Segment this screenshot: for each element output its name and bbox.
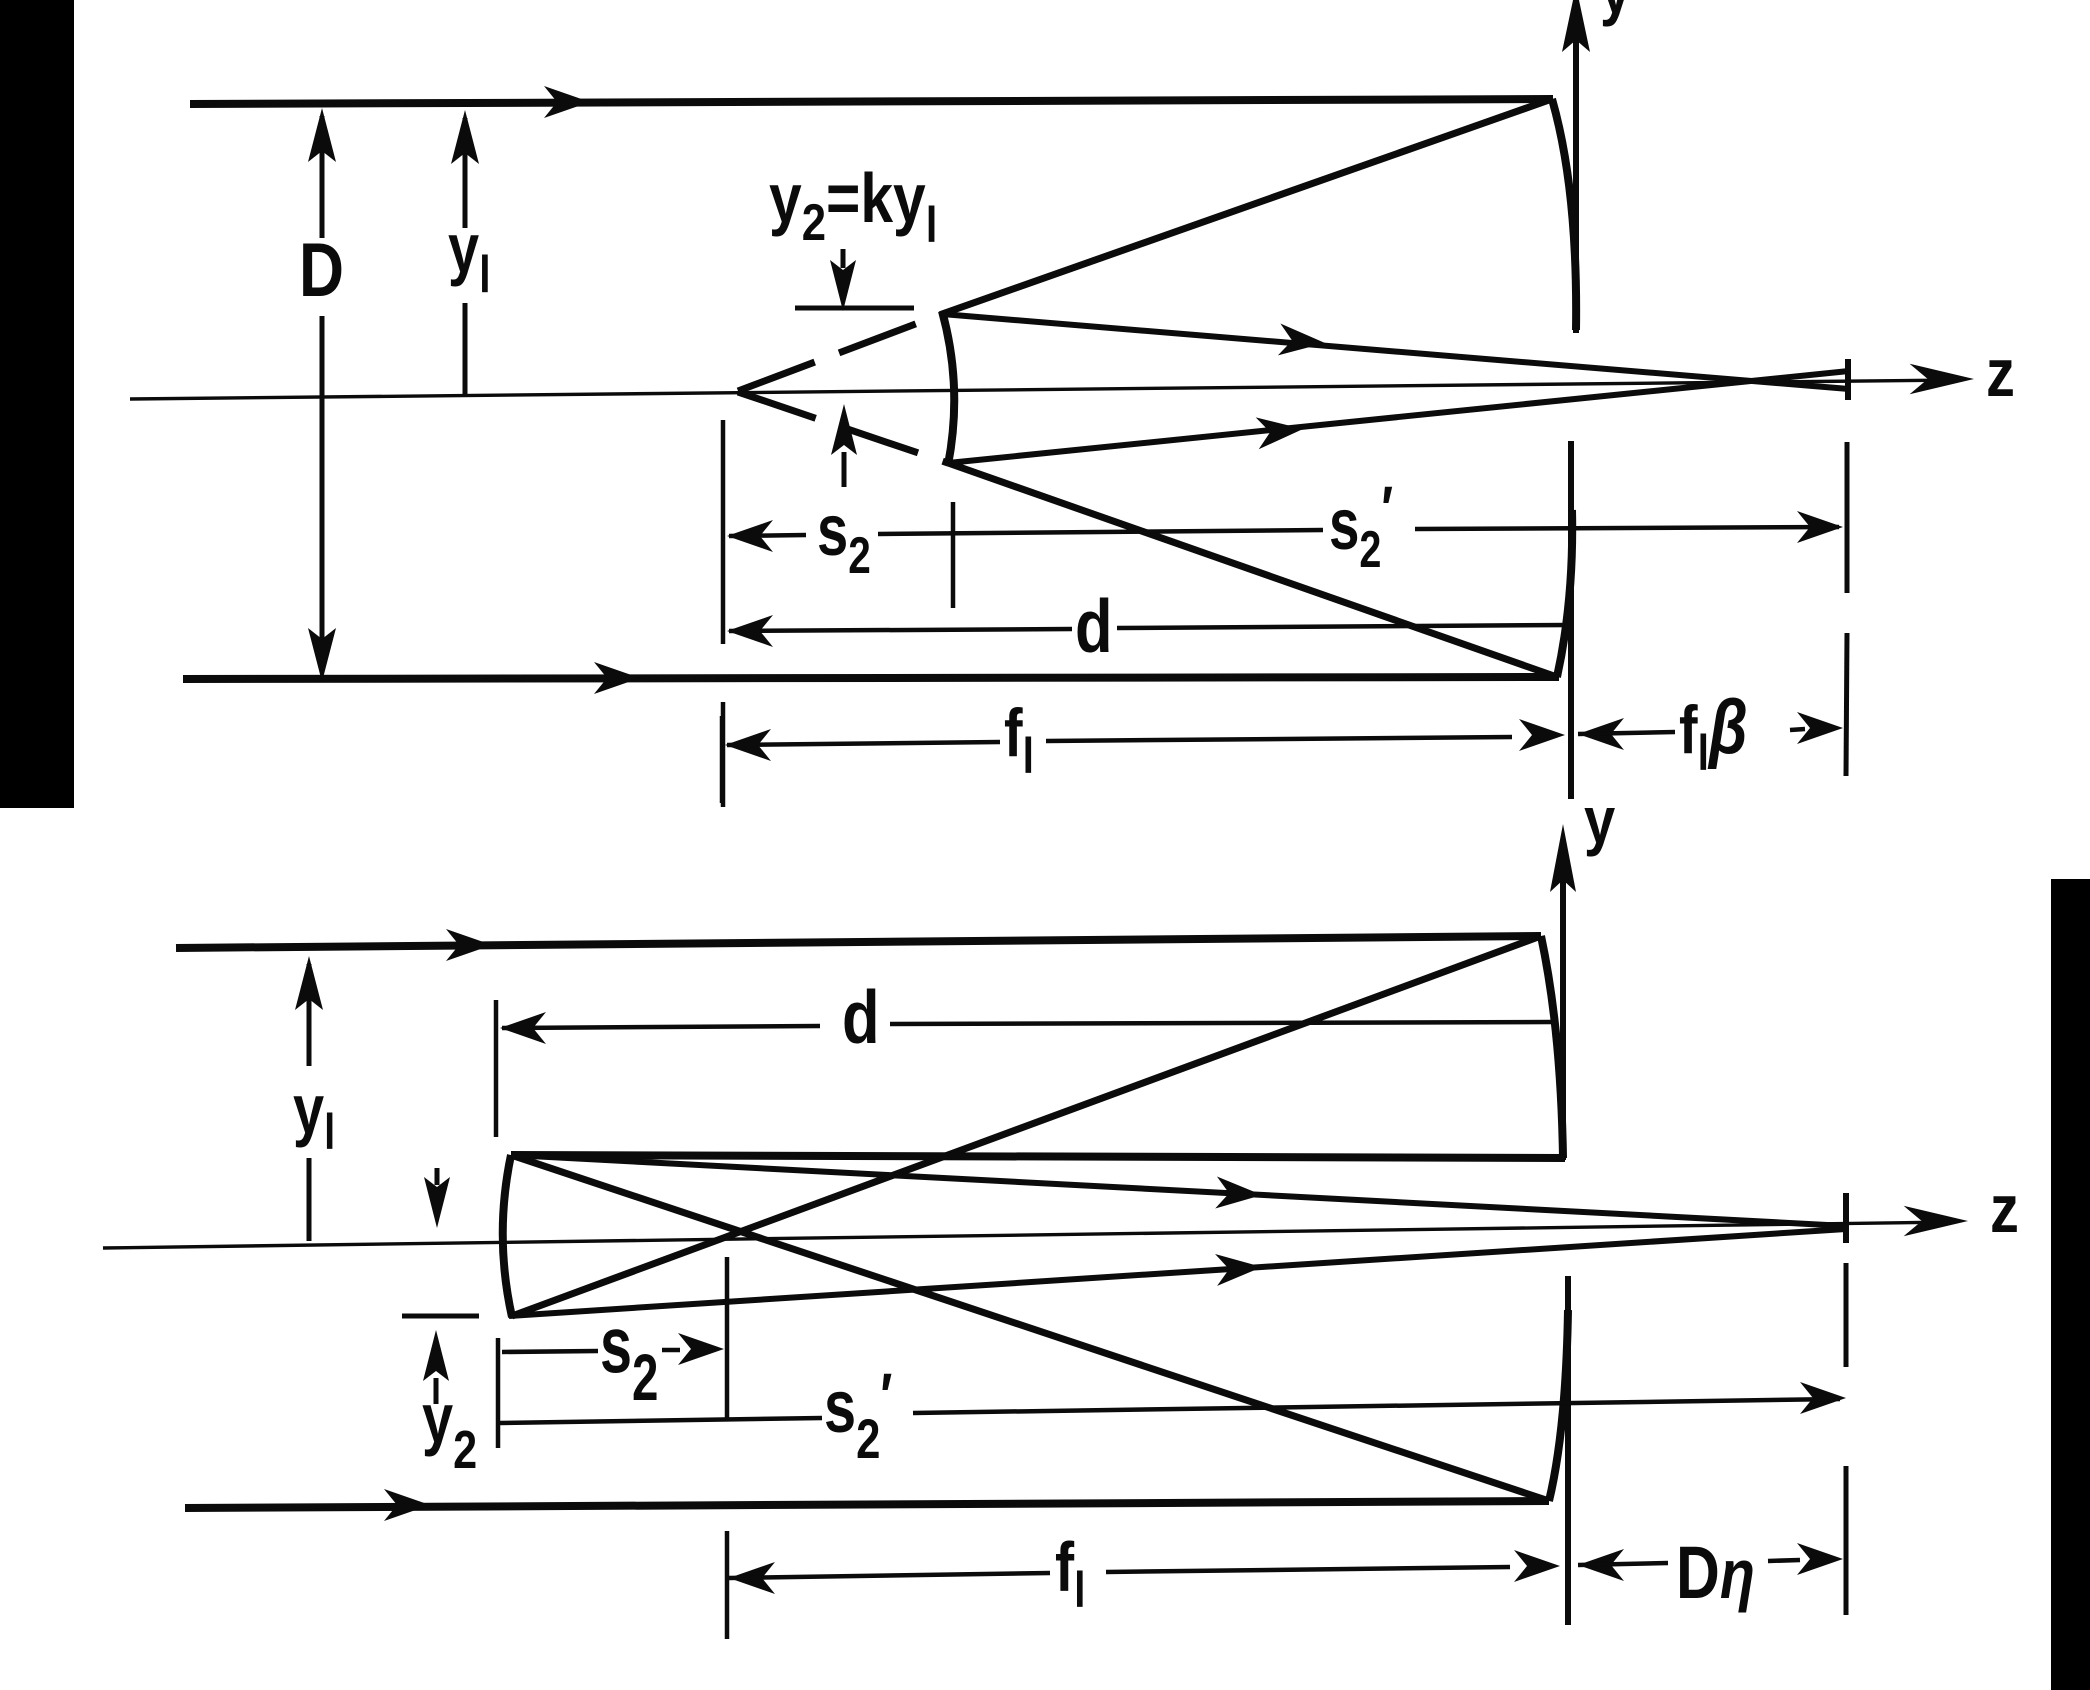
y axis arrowhead (bottom diagram) xyxy=(1550,824,1576,892)
s2' label (top diagram) xyxy=(1329,475,1393,579)
svg-text:d: d xyxy=(1075,584,1113,668)
s2' right arrowhead (bottom diagram) xyxy=(1800,1382,1846,1414)
horizontal ray secondary-top to primary (bottom diagram) xyxy=(511,1155,1565,1158)
y1 dimension arrow (top diagram) xyxy=(463,118,468,228)
tick at top of y2 gap (top diagram) xyxy=(795,306,914,311)
svg-text:d: d xyxy=(842,975,880,1059)
D*eta dimension line left part (bottom diagram) xyxy=(1578,1563,1668,1565)
f1*beta left arrowhead (top diagram) xyxy=(1578,718,1624,750)
s2 dimension line (top diagram) xyxy=(729,535,806,536)
f1 left tick at focus plane (bottom diagram) xyxy=(725,1531,730,1639)
d left arrowhead (top diagram) xyxy=(727,615,773,647)
svg-text:D: D xyxy=(299,227,344,312)
f1 label (top diagram) xyxy=(1004,696,1034,784)
f1*beta label (top diagram) xyxy=(1679,684,1748,781)
z axis arrowhead (top diagram) xyxy=(1910,364,1974,394)
y axis (bottom diagram) xyxy=(1560,880,1566,1160)
y axis (top diagram) xyxy=(1573,18,1579,333)
y axis label (bottom diagram) xyxy=(1584,784,1615,857)
s2 dimension line (bottom diagram) xyxy=(502,1351,598,1352)
arrowhead on lower final ray (bottom diagram) xyxy=(1215,1251,1263,1286)
D*eta dimension line right part (bottom diagram) xyxy=(1768,1560,1800,1561)
y1 label (top diagram) xyxy=(448,210,491,303)
d dimension line (top diagram) xyxy=(729,629,1072,631)
f1*beta dimension line left part (top diagram) xyxy=(1578,732,1675,734)
D aperture dimension arrow (top diagram) xyxy=(320,116,325,238)
arrowhead on bottom input ray (top diagram) xyxy=(594,662,640,694)
svg-text:y: y xyxy=(1600,0,1631,27)
s2 label (top diagram) xyxy=(817,490,871,584)
final ray secondary-bottom to focus (bottom diagram) xyxy=(509,1229,1846,1316)
s2' label (bottom diagram) xyxy=(824,1361,892,1470)
D*eta left arrowhead (bottom diagram) xyxy=(1578,1549,1624,1581)
scan artifact: left black bar xyxy=(0,0,74,808)
y2 horizontal tick (bottom diagram) xyxy=(402,1314,479,1319)
f1 left tick (top diagram) xyxy=(720,716,725,803)
arrowhead on upper final ray (top diagram) xyxy=(1278,324,1326,359)
y axis arrowhead (top diagram) xyxy=(1562,0,1590,52)
left tick of s2 and d dimensions (top diagram) xyxy=(721,420,726,644)
D*eta label (bottom diagram) xyxy=(1676,1532,1755,1614)
svg-text:y: y xyxy=(1584,784,1615,857)
z axis arrowhead (bottom diagram) xyxy=(1904,1206,1968,1236)
primary mirror upper surface (top diagram) xyxy=(1552,99,1576,330)
s2 label (bottom diagram) xyxy=(600,1300,658,1415)
f1 label (bottom diagram) xyxy=(1055,1528,1086,1618)
z axis label (top diagram) xyxy=(1986,336,2015,411)
d left arrowhead (bottom diagram) xyxy=(500,1012,546,1044)
ray primary-bottom through focus to secondary-top (bottom diagram) xyxy=(511,1155,1549,1501)
svg-text:flβ: flβ xyxy=(1679,684,1748,781)
z axis (bottom diagram) xyxy=(103,1222,1952,1248)
y2 label (bottom diagram) xyxy=(422,1380,477,1480)
f1 dimension line (bottom diagram) xyxy=(729,1573,1050,1578)
svg-text:Dη: Dη xyxy=(1676,1532,1755,1614)
arrowhead on upper final ray (bottom diagram) xyxy=(1215,1177,1263,1211)
top marginal input ray (bottom diagram) xyxy=(176,936,1541,948)
image plane tick on axis (bottom diagram) xyxy=(1843,1193,1849,1243)
primary mirror plane line below axis (top diagram) xyxy=(1568,441,1574,799)
bottom marginal input ray (bottom diagram) xyxy=(185,1501,1549,1508)
secondary plane tick (top diagram) xyxy=(951,502,956,608)
down arrow from y2=ky1 label (top diagram) xyxy=(841,249,846,268)
top marginal input ray (top diagram) xyxy=(190,99,1553,104)
y2 = ky1 label (top diagram) xyxy=(769,158,937,253)
arrowhead on top input ray (top diagram) xyxy=(544,86,590,118)
d dimension left tick (bottom diagram) xyxy=(494,1000,499,1137)
image plane dashed line upper segment (top diagram) xyxy=(1845,442,1850,593)
arrowhead on top input ray (bottom diagram) xyxy=(446,929,492,961)
f1*beta right arrowhead (top diagram) xyxy=(1797,712,1843,744)
svg-text:z: z xyxy=(1986,336,2015,411)
f1 right arrowhead (top diagram) xyxy=(1519,719,1565,751)
secondary mirror surface (top diagram) xyxy=(942,311,954,465)
s2 left arrowhead (top diagram) xyxy=(727,520,773,552)
D*eta right arrowhead (bottom diagram) xyxy=(1797,1543,1843,1575)
final ray secondary-top to focus (bottom diagram) xyxy=(511,1155,1846,1226)
left tick of s2/s2' dimensions (bottom diagram) xyxy=(496,1338,501,1448)
f1 right arrowhead (bottom diagram) xyxy=(1514,1550,1560,1582)
arrowhead on bottom input ray (bottom diagram) xyxy=(384,1489,430,1521)
focus plane tick (bottom diagram) xyxy=(725,1257,730,1420)
d dimension line (bottom diagram) xyxy=(502,1026,820,1028)
d label (bottom diagram) xyxy=(842,975,880,1059)
s2' dimension line (bottom diagram) xyxy=(500,1418,822,1423)
image plane dashed line lower segment (bottom diagram) xyxy=(1844,1466,1849,1615)
z axis label (bottom diagram) xyxy=(1990,1172,2019,1247)
f1 left arrowhead (top diagram) xyxy=(725,729,771,761)
y1 dimension arrow (bottom diagram) xyxy=(307,964,312,1066)
reflected ray primary-top to secondary-top (top diagram) xyxy=(942,99,1552,314)
D label xyxy=(299,227,344,312)
dashed virtual ray secondary-top to primary focus (top diagram) xyxy=(738,314,942,391)
arrowhead on lower final ray (top diagram) xyxy=(1256,413,1305,449)
secondary mirror surface (bottom diagram) xyxy=(503,1155,512,1317)
reflected ray primary-bottom to secondary-bottom (top diagram) xyxy=(948,463,1557,677)
y2 up arrow (bottom diagram) xyxy=(434,1378,439,1404)
primary mirror lower surface (top diagram) xyxy=(1557,510,1572,677)
ray primary-top through focus to secondary-bottom (bottom diagram) xyxy=(512,936,1541,1316)
image plane dashed line lower segment (top diagram) xyxy=(1846,633,1847,776)
s2 right arrowhead (bottom diagram) xyxy=(678,1333,724,1365)
d label (top diagram) xyxy=(1075,584,1113,668)
f1 focus plane left arrowhead (bottom diagram) xyxy=(729,1562,775,1594)
scan artifact: right black bar xyxy=(2051,879,2090,1690)
s2' right arrowhead (top diagram) xyxy=(1797,511,1843,543)
f1*beta dimension line right part (top diagram) xyxy=(1790,729,1805,730)
dashed virtual ray secondary-bottom to primary focus (top diagram) xyxy=(738,392,948,463)
primary mirror plane line below axis (bottom diagram) xyxy=(1565,1276,1571,1625)
image plane tick on axis (top diagram) xyxy=(1845,359,1851,400)
y axis label (top diagram) xyxy=(1600,0,1631,27)
primary mirror lower surface (bottom diagram) xyxy=(1549,1310,1568,1501)
bottom marginal input ray (top diagram) xyxy=(183,677,1559,679)
primary mirror upper surface (bottom diagram) xyxy=(1541,936,1563,1158)
final ray secondary-top to focus (top diagram) xyxy=(942,314,1849,389)
image plane dashed line upper segment (bottom diagram) xyxy=(1844,1263,1849,1367)
y1 label (bottom diagram) xyxy=(293,1071,335,1160)
z axis (top diagram) xyxy=(130,380,1958,399)
svg-text:z: z xyxy=(1990,1172,2019,1247)
down arrow above axis (bottom diagram) xyxy=(435,1168,440,1185)
f1 dimension line (top diagram) xyxy=(727,742,1000,745)
final ray secondary-bottom to focus (top diagram) xyxy=(948,371,1849,463)
up arrow below axis marking y2 (top diagram) xyxy=(842,452,847,487)
